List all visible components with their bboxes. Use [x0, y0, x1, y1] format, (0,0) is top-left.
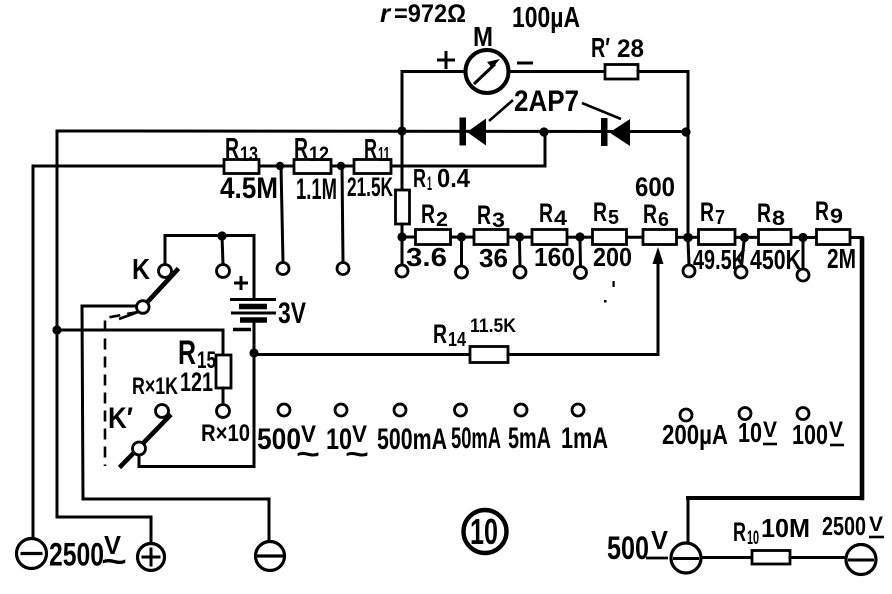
svg-text:121: 121: [180, 367, 213, 397]
svg-text:R: R: [225, 133, 239, 165]
node R4-R5: [575, 232, 584, 241]
wire R14 line: [254, 353, 470, 356]
stray ink tick below R5: [613, 281, 615, 287]
svg-text:R: R: [643, 199, 657, 229]
svg-text:2500: 2500: [822, 511, 866, 541]
resistor R12: [294, 160, 331, 174]
jack 10V dc: [739, 408, 751, 420]
svg-text:R: R: [593, 197, 607, 227]
svg-text:11: 11: [378, 144, 390, 166]
switch K-prime pole circle: [133, 442, 146, 455]
svg-text:M: M: [473, 21, 493, 52]
resistor R11: [354, 160, 391, 174]
resistor R5: [593, 230, 627, 245]
svg-text:R: R: [733, 517, 746, 547]
svg-text:10M: 10M: [761, 513, 810, 543]
wire main resistor row: [402, 236, 862, 240]
svg-text:500: 500: [257, 423, 301, 456]
svg-text:28: 28: [617, 35, 644, 63]
svg-text:1.1M: 1.1M: [296, 173, 337, 206]
wire left vertical to 2500Vac plus terminal: [57, 131, 151, 541]
stray ink dot: [604, 300, 607, 303]
wiper arrow into R6: [653, 247, 664, 264]
terminal 2500V: [846, 545, 876, 575]
jack 10Vac: [335, 404, 347, 416]
svg-text:11.5K: 11.5K: [470, 316, 516, 337]
svg-text:7: 7: [715, 207, 725, 229]
jack 500Vac: [278, 404, 290, 416]
node battery bottom R14: [249, 348, 258, 357]
svg-text:10: 10: [738, 417, 762, 448]
svg-text:~: ~: [101, 543, 127, 579]
svg-text:V: V: [651, 525, 669, 555]
svg-text:~: ~: [345, 438, 369, 471]
resistor R-prime 28: [605, 65, 638, 80]
contact circle: [456, 266, 468, 278]
wire stub to contact: [742, 241, 745, 266]
wire right edge down and across to 500V terminal: [860, 239, 865, 498]
contact second: [217, 265, 230, 278]
resistor R3: [474, 230, 508, 245]
svg-text:R: R: [539, 198, 553, 228]
svg-text:R: R: [477, 200, 491, 230]
svg-text:100: 100: [792, 419, 828, 450]
contact circle: [575, 267, 587, 279]
svg-text:10: 10: [470, 511, 498, 552]
wire stub second contact: [222, 236, 223, 264]
wire riser R11 bus to diode bus: [544, 133, 547, 166]
wire R13 bus line: [33, 165, 545, 168]
wire R15 top line: [57, 330, 223, 355]
svg-text:3V: 3V: [278, 297, 306, 330]
wire R10 to 2500V terminal: [790, 556, 846, 559]
contact circle: [683, 265, 695, 277]
resistor R8: [759, 230, 792, 245]
svg-text:R′: R′: [591, 32, 610, 63]
svg-text:4: 4: [554, 207, 567, 230]
wire meter to R-prime: [508, 70, 605, 73]
battery minus sign: [233, 328, 251, 331]
svg-text:50mA: 50mA: [451, 422, 501, 455]
contact circle: [797, 269, 809, 281]
svg-text:=972Ω: =972Ω: [394, 0, 466, 28]
node R2-R3: [457, 232, 466, 241]
resistor R1 vertical with 0.4 label: [401, 135, 404, 190]
svg-text:R: R: [421, 199, 435, 229]
svg-text:10: 10: [747, 528, 759, 549]
svg-text:450K: 450K: [750, 244, 801, 275]
svg-text:5: 5: [608, 207, 619, 229]
svg-text:2AP7: 2AP7: [514, 85, 579, 118]
mechanical linkage dashed line: [105, 312, 138, 466]
svg-text:3: 3: [492, 209, 505, 232]
svg-text:500mA: 500mA: [377, 423, 447, 456]
terminal common middle: [256, 542, 285, 571]
node R12-R11: [337, 162, 345, 170]
node left bus R15 line: [52, 325, 61, 334]
resistor R4: [532, 230, 567, 245]
switch K pole circle: [137, 301, 150, 314]
wire K pole to bottom middle terminal: [82, 306, 269, 541]
wire left vertical to 2500Vac minus terminal: [32, 166, 35, 539]
terminal minus 2500Vac: [17, 539, 47, 569]
contact K-prime fixed: [156, 405, 169, 418]
resistor R6 with 600 label: [643, 230, 677, 245]
svg-text:R: R: [757, 198, 771, 228]
jack 100V dc: [797, 408, 809, 420]
wire terminal to R10: [701, 556, 752, 559]
node R1 bottom: [397, 232, 406, 241]
svg-text:12: 12: [309, 143, 329, 166]
contact K fixed: [159, 265, 172, 278]
svg-text:200: 200: [593, 242, 632, 272]
meter minus sign: [517, 62, 533, 65]
svg-text:~: ~: [296, 438, 320, 471]
svg-text:R×1K: R×1K: [132, 373, 178, 400]
resistor R2: [416, 230, 451, 245]
jack 1mA: [572, 404, 584, 416]
contact Rx10: [217, 405, 230, 418]
resistor R13: [224, 160, 259, 174]
wire stub K fixed contact: [164, 236, 167, 265]
meter plus sign: [437, 51, 455, 69]
svg-text:1: 1: [427, 174, 432, 195]
meter M: [466, 50, 509, 93]
wire R-prime to right corner down to diode bus: [638, 72, 688, 239]
svg-text:V: V: [869, 513, 883, 536]
svg-text:160: 160: [534, 242, 575, 272]
svg-text:R: R: [364, 133, 377, 164]
battery 3V plates: [230, 298, 276, 301]
jack 5mA: [515, 404, 527, 416]
contact circle: [396, 265, 408, 277]
node R6-R7: [683, 233, 693, 243]
svg-text:V: V: [763, 417, 777, 442]
switch K-prime blade: [120, 415, 172, 468]
resistor R10 10M: [752, 551, 790, 565]
svg-text:0.4: 0.4: [437, 163, 470, 193]
node diode R-prime junction: [681, 127, 690, 136]
svg-text:1mA: 1mA: [561, 422, 608, 455]
wire top diode bus line: [57, 130, 687, 134]
svg-text:21.5K: 21.5K: [347, 172, 393, 202]
switch K top line: [165, 234, 254, 237]
diode D1 2AP7: [460, 118, 467, 146]
resistor R15: [216, 355, 231, 388]
svg-text:9: 9: [830, 205, 843, 228]
node between diodes: [539, 127, 548, 136]
wire K-prime pole to bottom line: [139, 455, 254, 467]
svg-text:13: 13: [240, 143, 258, 166]
jack 50mA: [455, 404, 467, 416]
resistor R7: [699, 230, 736, 245]
svg-text:200µA: 200µA: [662, 419, 728, 450]
svg-text:4.5M: 4.5M: [220, 172, 278, 205]
wire stub to contact: [802, 241, 805, 269]
figure number 10 circled: [464, 510, 507, 553]
svg-text:R: R: [433, 319, 447, 349]
wire battery bottom down: [253, 322, 256, 467]
svg-text:3.6: 3.6: [406, 242, 447, 272]
switch K blade: [143, 269, 179, 308]
wire stub to contact: [579, 241, 583, 266]
contact circle: [514, 266, 526, 278]
wire stub to contact: [281, 166, 283, 262]
wire stub to contact: [460, 241, 463, 266]
svg-text:R: R: [294, 133, 308, 165]
terminal plus 2500Vac: [138, 544, 165, 571]
svg-text:R×10: R×10: [201, 420, 250, 447]
svg-text:36: 36: [479, 243, 508, 273]
wire meter branch: [402, 72, 466, 132]
wire R15 bottom stub: [222, 388, 225, 404]
svg-text:100µA: 100µA: [512, 2, 580, 34]
wire R14 to wiper riser: [508, 252, 658, 355]
svg-text:K′: K′: [108, 402, 133, 435]
svg-text:6: 6: [658, 209, 669, 231]
jack 200uA: [680, 409, 692, 421]
switch K linkage tail: [119, 312, 138, 319]
svg-text:500: 500: [607, 530, 649, 566]
svg-text:600: 600: [635, 172, 675, 202]
wire stub to contact: [401, 241, 404, 265]
node meter junction: [397, 126, 406, 135]
svg-text:R: R: [413, 163, 426, 193]
svg-text:14: 14: [448, 329, 467, 351]
contact under R12: [337, 263, 349, 275]
svg-text:8: 8: [772, 207, 785, 230]
svg-text:V: V: [829, 417, 843, 442]
node R7-R8: [740, 233, 749, 242]
svg-text:2: 2: [436, 209, 448, 231]
wire stub to contact: [518, 241, 522, 266]
resistor R14: [470, 347, 508, 363]
wire stub to contact: [342, 166, 343, 262]
svg-text:R: R: [815, 196, 829, 226]
svg-text:2M: 2M: [827, 243, 856, 274]
wire stub to contact: [688, 241, 689, 265]
node R13-R12: [276, 162, 284, 170]
svg-text:R: R: [700, 197, 714, 227]
resistor R9: [817, 230, 851, 245]
node K line junction: [217, 231, 226, 240]
battery plus sign: [234, 276, 248, 290]
diode D2 2AP7: [601, 118, 608, 146]
svg-text:5mA: 5mA: [508, 422, 551, 455]
wire battery top lead: [253, 236, 256, 300]
svg-text:K: K: [132, 254, 150, 286]
node R3-R4: [515, 232, 524, 241]
node R8-R9: [798, 233, 807, 242]
contact circle: [735, 266, 747, 278]
terminal 500V: [671, 543, 701, 573]
svg-text:2500: 2500: [49, 537, 104, 573]
contact under R13: [277, 263, 289, 275]
jack 500mA: [394, 404, 406, 416]
